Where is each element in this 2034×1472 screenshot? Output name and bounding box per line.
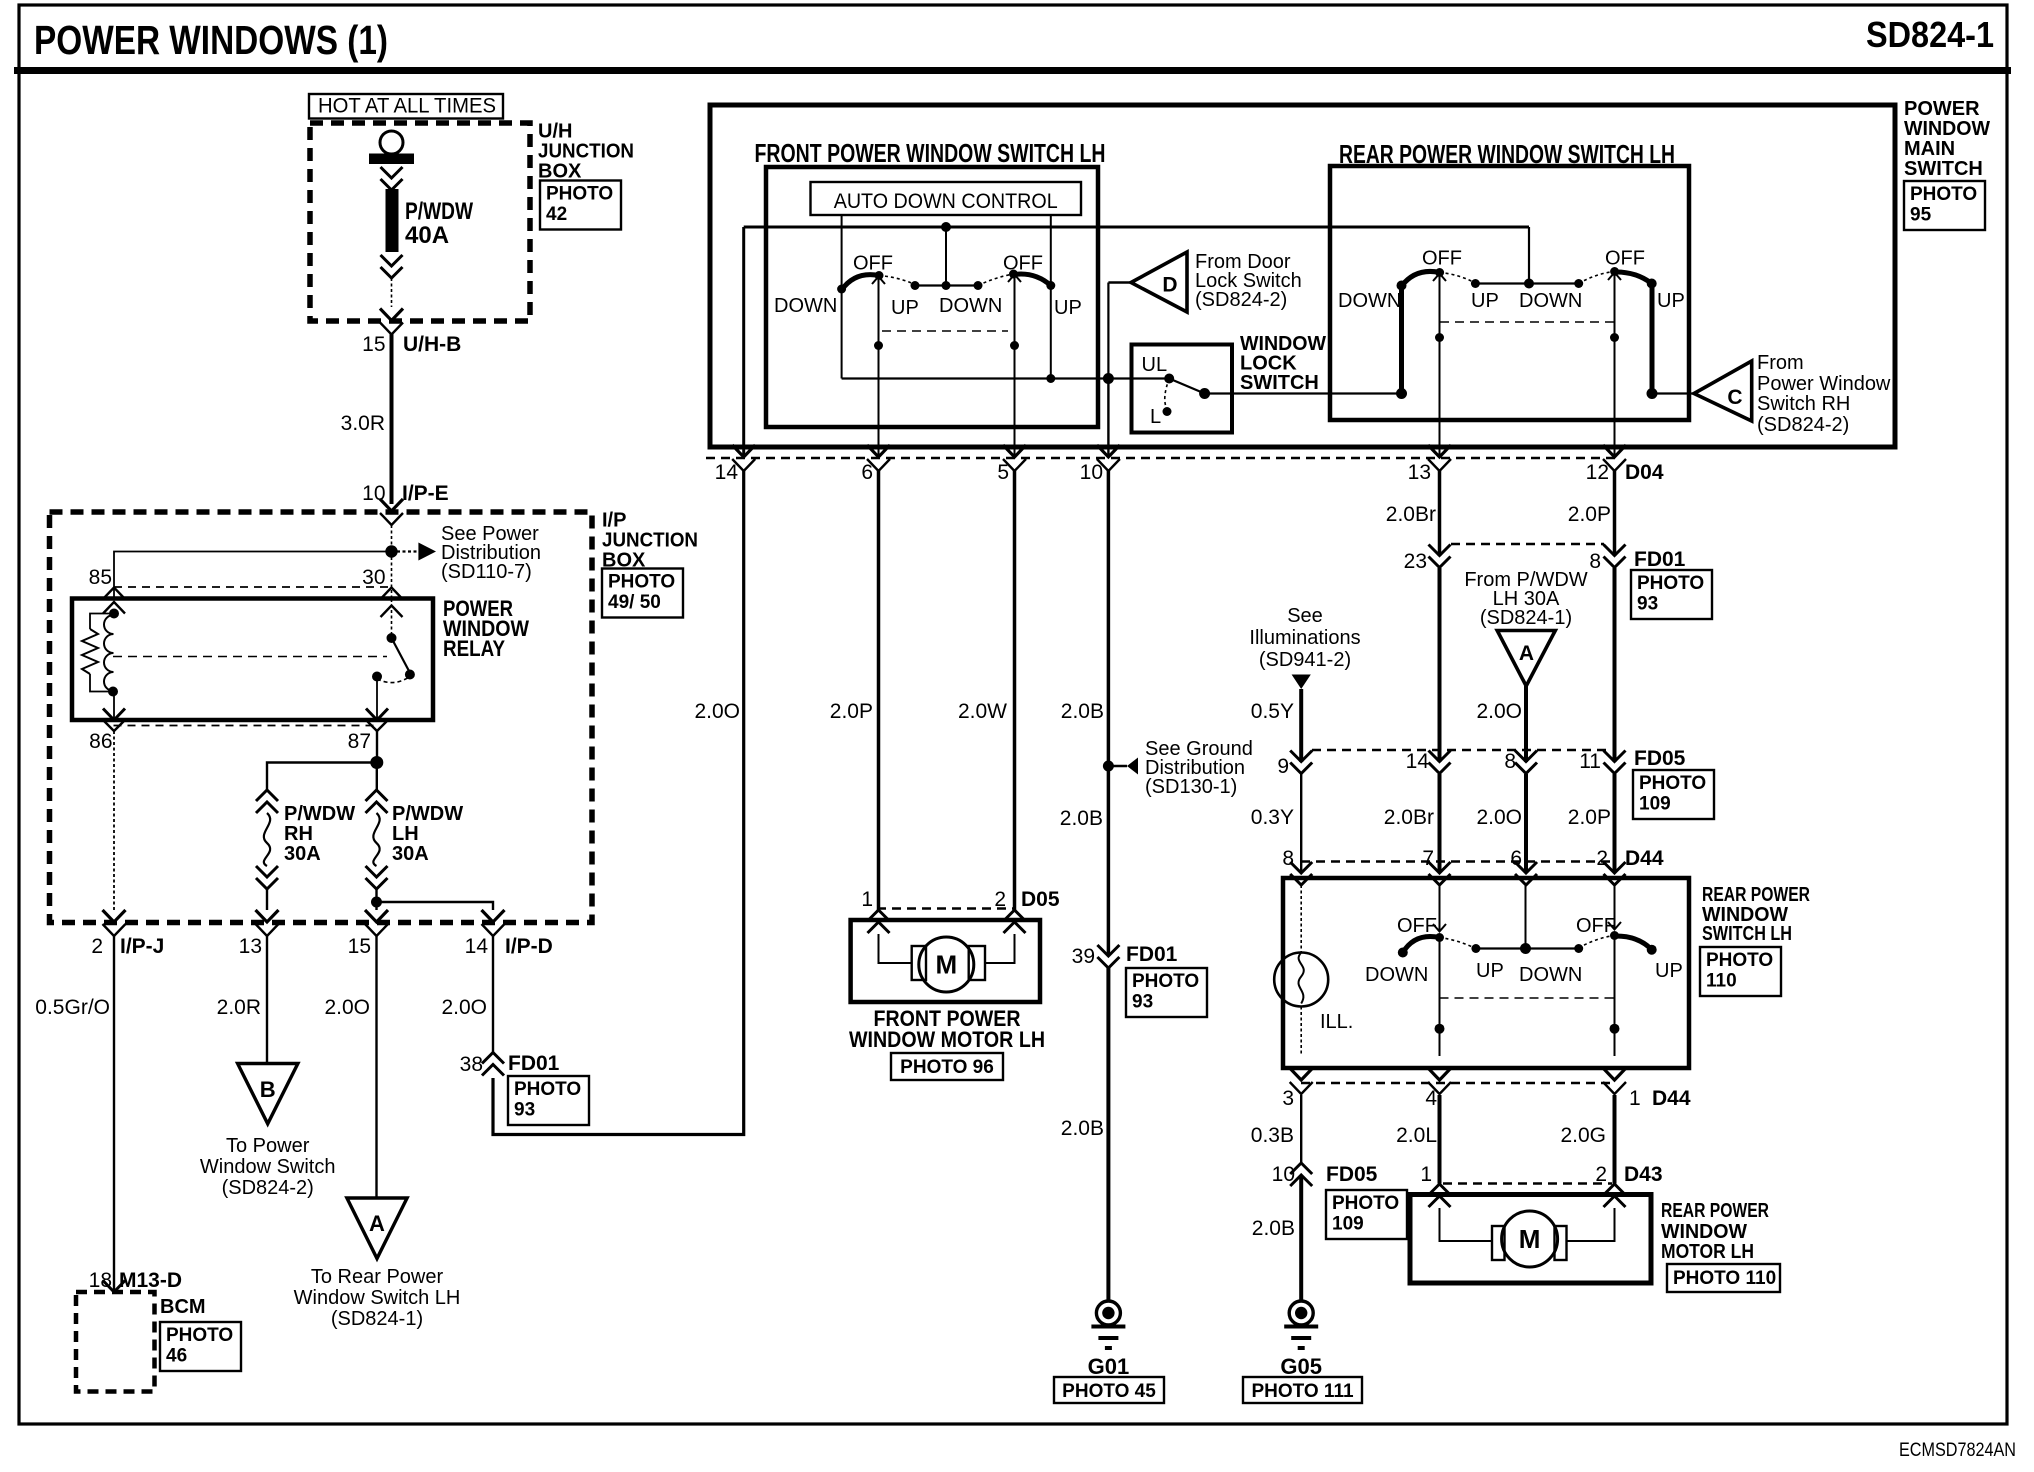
connector row D05 dashed [877,907,1013,909]
svg-text:LH: LH [392,823,419,845]
header REAR POWER WINDOW SWITCH LH [1339,139,1675,169]
wire 2.0Br 14-7 [1384,774,1440,873]
svg-text:93: 93 [514,1099,535,1120]
svg-text:(SD130-1): (SD130-1) [1145,776,1237,798]
label from power window switch RH [1757,352,1891,436]
label DOWN rear-left [1338,290,1401,312]
illumination feed arrow [1292,675,1311,690]
wire 2.0W pin5 [958,470,1015,910]
svg-text:14: 14 [465,935,489,958]
svg-text:Switch RH: Switch RH [1757,393,1850,415]
svg-text:4: 4 [1425,1087,1437,1110]
connector 12 D04 [1586,445,1626,484]
front right switch contacts [1009,270,1055,291]
label OFF rear2-right [1576,915,1616,937]
rear power window motor box [1410,1195,1651,1284]
svg-text:38: 38 [460,1053,483,1076]
wire rear-left down to bus [1396,286,1407,400]
battery feed symbol [369,131,414,164]
svg-text:G05: G05 [1280,1354,1322,1379]
svg-text:UP: UP [891,297,919,319]
svg-text:PHOTO: PHOTO [546,183,613,204]
svg-text:POWER WINDOWS (1): POWER WINDOWS (1) [34,17,388,63]
svg-text:UL: UL [1142,354,1168,376]
wire junction to relay pin 30 [391,552,393,599]
label POWER WINDOW MAIN SWITCH [1904,98,1990,180]
pin 87 chevrons [366,709,388,732]
svg-text:DOWN: DOWN [939,295,1002,317]
svg-text:95: 95 [1910,204,1932,225]
svg-text:30: 30 [362,566,385,589]
relay connector dashed line (85/30) [114,586,392,588]
wire motor LH pin2 [985,934,1015,963]
svg-text:FD01: FD01 [508,1052,560,1075]
node see-power-distribution junction [385,545,397,557]
svg-text:RELAY: RELAY [443,636,505,661]
svg-text:46: 46 [166,1345,187,1366]
label UP front-right [1054,297,1082,319]
svg-text:13: 13 [1408,461,1431,484]
label UP rear2-right [1655,960,1683,982]
svg-text:UP: UP [1655,960,1683,982]
svg-text:10: 10 [1272,1163,1295,1186]
wire to fuse LH [376,763,378,791]
label DOWN rear-center [1519,290,1582,312]
svg-text:U/H-B: U/H-B [403,333,461,356]
svg-text:Window Switch LH: Window Switch LH [294,1287,461,1309]
photo ref PHOTO 111 [1243,1377,1362,1403]
label OFF rear-right [1605,248,1645,270]
connector 15 out [348,910,388,958]
svg-text:U/H: U/H [538,121,572,143]
svg-text:OFF: OFF [1605,248,1645,270]
svg-text:14: 14 [715,461,739,484]
label DOWN rear2-left [1365,964,1428,986]
svg-text:I/P-D: I/P-D [505,935,553,958]
svg-text:SWITCH: SWITCH [1904,158,1983,180]
power window main switch box [710,105,1895,447]
connector row D44 top dashed [1301,860,1614,862]
svg-text:PHOTO: PHOTO [1132,971,1199,992]
connector 6 D44 [1510,847,1537,885]
wire motor pin2 [1566,1208,1615,1241]
rear2 right pole [1608,885,1621,1056]
svg-text:M: M [935,950,957,980]
see power distribution arrow [392,523,542,583]
wire coil to pin 86 [113,692,115,721]
svg-text:G01: G01 [1088,1354,1130,1379]
window lock L contact [1150,379,1172,429]
svg-text:DOWN: DOWN [1365,964,1428,986]
svg-text:ECMSD7824AN: ECMSD7824AN [1899,1440,2016,1461]
label POWER WINDOW RELAY [443,596,529,661]
wire rear-right up to bus [1647,284,1658,400]
svg-text:POWER: POWER [1904,98,1980,120]
front power window switch box [766,167,1098,427]
svg-text:7: 7 [1422,847,1434,870]
relay switch pivot [387,599,397,643]
svg-text:2.0O: 2.0O [694,700,740,723]
svg-text:Illuminations: Illuminations [1249,627,1360,649]
rear2 left off-dashes [1440,938,1476,949]
connector 23 FD01 [1404,545,1451,574]
label HOT AT ALL TIMES [309,94,503,119]
rear2 right rocker [1615,936,1657,955]
rear2 feed drop [1525,885,1527,949]
svg-text:8: 8 [1589,550,1601,573]
pin 85 label [89,566,112,589]
label U/H JUNCTION BOX [538,121,634,183]
window lock UL contact [1142,354,1175,384]
svg-text:PHOTO: PHOTO [514,1079,581,1100]
title bar rule [14,67,2011,74]
wire ADC left leg [841,215,843,379]
relay coil bottom node [108,687,118,697]
wire pin14 drop [742,227,745,457]
wire ill to pin 3 [1300,1007,1302,1057]
wire 2.0L [1396,1095,1439,1184]
label D04 [1625,461,1664,484]
off-page triangle A (bottom) [347,1198,407,1259]
connector row D44 bottom dashed [1301,1082,1616,1084]
svg-text:PHOTO: PHOTO [1910,184,1977,205]
relay resistor [82,614,114,692]
rear power window switch LH box [1283,878,1689,1068]
svg-text:P/WDW: P/WDW [405,198,473,225]
rear left switch down contact [1397,281,1407,291]
connector 4 D44 bottom [1425,1068,1451,1110]
svg-text:PHOTO: PHOTO [1332,1193,1399,1214]
connector 14 D04 [715,445,756,484]
svg-text:2.0P: 2.0P [1568,503,1611,526]
pin 85 chevrons [103,588,125,614]
wire 2.0B to G05 [1252,1177,1301,1301]
connector 13 out [239,910,279,958]
wire 2.0G [1560,1095,1614,1184]
svg-text:DOWN: DOWN [1519,290,1582,312]
svg-text:HOT AT ALL TIMES: HOT AT ALL TIMES [318,95,496,118]
fuse P/WDW 40A top chevrons [381,167,403,190]
title POWER WINDOWS (1) [34,17,388,63]
svg-text:1: 1 [1420,1163,1432,1186]
svg-text:30A: 30A [392,843,429,865]
rear left off-dashes [1440,273,1476,284]
svg-text:DOWN: DOWN [1519,964,1582,986]
svg-text:85: 85 [89,566,112,589]
rear2 mechanical link dashed [1440,997,1615,999]
svg-text:8: 8 [1282,847,1294,870]
label OFF rear2-left [1397,915,1437,937]
svg-text:FRONT POWER WINDOW SWITCH LH: FRONT POWER WINDOW SWITCH LH [755,138,1106,168]
svg-text:L: L [1150,406,1161,428]
label DOWN front-left [774,295,837,317]
svg-text:13: 13 [239,935,262,958]
photo ref PHOTO 42 [540,181,621,230]
relay coil [104,615,114,691]
connector 10 I/P-E [362,482,449,525]
I/P junction box (dashed) [50,512,593,923]
connector 14 I/P-D [465,910,553,958]
svg-text:(SD941-2): (SD941-2) [1259,649,1351,671]
svg-text:(SD824-1): (SD824-1) [331,1308,423,1330]
rear right off-dashes [1579,272,1615,284]
fuse P/WDW RH 30A [256,790,355,889]
rear right switch contacts [1610,267,1657,289]
svg-text:0.5Gr/O: 0.5Gr/O [35,996,110,1019]
connector 38 FD01 [460,1052,560,1076]
rear motor M [1502,1211,1558,1267]
wire ADC middle drop [945,227,947,286]
front motor M [919,937,974,992]
svg-text:(SD824-2): (SD824-2) [1195,289,1287,311]
svg-text:110: 110 [1706,970,1737,991]
svg-text:2.0O: 2.0O [324,996,370,1019]
connector 7 D44 [1422,847,1450,885]
svg-text:0.5Y: 0.5Y [1251,700,1294,723]
svg-text:PHOTO 111: PHOTO 111 [1251,1381,1354,1402]
connector 10 FD05 [1272,1163,1378,1186]
svg-text:2.0L: 2.0L [1396,1124,1437,1147]
svg-text:2.0O: 2.0O [1476,700,1522,723]
BCM box (dashed) [76,1292,155,1392]
svg-text:FD05: FD05 [1326,1163,1378,1186]
rear2 left rocker [1398,937,1440,958]
svg-text:M: M [1519,1224,1541,1254]
photo ref PHOTO 109 (right) [1633,770,1714,819]
svg-text:2.0P: 2.0P [1568,806,1611,829]
wire pin 86 down [113,731,115,910]
connector 1 D05 [861,888,889,933]
svg-text:2.0R: 2.0R [217,996,261,1019]
svg-text:2.0W: 2.0W [958,700,1007,723]
label ILL. [1320,1011,1353,1033]
connector 2 D43 [1595,1163,1662,1207]
rear2 right off-dashes [1579,936,1615,949]
rear power window switch box (main) [1330,166,1689,420]
svg-text:OFF: OFF [853,253,893,275]
svg-text:SWITCH LH: SWITCH LH [1702,923,1792,945]
svg-text:UP: UP [1476,960,1504,982]
fuse P/WDW 40A body [386,189,399,252]
rear2 right off contact [1610,931,1619,940]
svg-text:ILL.: ILL. [1320,1011,1353,1033]
label REAR POWER WINDOW SWITCH LH [1702,884,1810,945]
svg-text:FD05: FD05 [1634,747,1686,770]
svg-text:PHOTO: PHOTO [1637,573,1704,594]
svg-text:UP: UP [1657,290,1685,312]
svg-text:12: 12 [1586,461,1609,484]
svg-text:I/P-J: I/P-J [120,935,164,958]
label DOWN front-center [939,295,1002,317]
svg-text:PHOTO: PHOTO [1639,773,1706,794]
photo ref PHOTO 109 (bottom) [1326,1190,1407,1239]
label FRONT POWER WINDOW MOTOR LH [849,1006,1045,1052]
wire branch to connector 14 [377,902,494,910]
label I/P JUNCTION BOX [602,510,698,572]
connector row D04 dashed [706,457,1617,459]
wire FD01-38 to main switch pin14 [493,470,744,1135]
svg-text:14: 14 [1406,750,1430,773]
label from door lock switch [1195,251,1302,311]
wire 2.0Br pin13 [1386,470,1440,556]
svg-text:BCM: BCM [160,1296,206,1318]
node I/P-D branch [371,897,382,908]
rear motor brushes [1492,1226,1567,1260]
wire rear feed drop [1528,227,1530,284]
rear2 left off contact [1435,933,1444,942]
window lock switch box [1132,345,1233,433]
wire 2.0O to FD01-38 [441,936,493,1053]
svg-text:109: 109 [1639,793,1671,814]
ground G05 [1280,1301,1322,1379]
svg-text:WINDOW MOTOR LH: WINDOW MOTOR LH [849,1027,1045,1052]
svg-text:FD01: FD01 [1634,548,1686,571]
svg-text:2.0P: 2.0P [830,700,873,723]
rear right pole [1608,273,1621,458]
pin 87 label [348,730,371,753]
svg-text:P/WDW: P/WDW [284,803,355,825]
svg-text:6: 6 [1510,847,1522,870]
rear2 center link [1471,943,1583,954]
svg-text:3.0R: 3.0R [341,412,385,435]
svg-text:D04: D04 [1625,461,1664,484]
relay bottom connector dashed line [114,725,376,727]
svg-text:RH: RH [284,823,313,845]
connector 6 D04 [861,445,890,484]
svg-text:8: 8 [1504,750,1516,773]
rear left rocker [1402,271,1440,286]
pin 30 chevrons [381,588,403,618]
node common/ADC right [1046,374,1055,383]
label to rear power window switch [294,1266,461,1330]
label DOWN rear2-center [1519,964,1582,986]
relay internal dashed separator [113,656,387,658]
svg-text:86: 86 [89,730,112,753]
front right switch rocker [1014,274,1051,286]
label OFF front-right [1003,253,1043,275]
label 2.0O pin14 [694,700,740,723]
svg-text:WINDOW: WINDOW [1904,118,1990,140]
label BCM [160,1296,206,1318]
svg-text:JUNCTION: JUNCTION [602,530,698,552]
svg-text:M13-D: M13-D [119,1269,182,1292]
wire 0.5Gr/O [35,936,114,1292]
svg-text:D: D [1162,274,1177,297]
svg-text:A: A [1519,642,1534,665]
svg-text:C: C [1727,386,1742,409]
svg-text:42: 42 [546,204,567,225]
wire 0.5Y [1251,689,1301,762]
illumination bulb ILL [1274,953,1328,1007]
rear2 left pole [1433,885,1446,1056]
connector 9 FD05 [1277,751,1312,779]
svg-text:PHOTO: PHOTO [608,571,675,592]
svg-text:109: 109 [1332,1213,1364,1234]
svg-text:UP: UP [1054,297,1082,319]
front left switch contacts [837,271,919,294]
svg-text:1: 1 [861,888,873,911]
svg-text:D43: D43 [1624,1163,1663,1186]
wire pin 87 down [376,731,378,763]
svg-text:Window Switch: Window Switch [200,1156,336,1178]
svg-text:2.0Br: 2.0Br [1386,503,1436,526]
connector 8 FD05 [1504,750,1537,774]
wire 2.0P pin6 [830,470,879,910]
pin 86 chevrons [103,709,125,732]
label UP rear-left [1471,290,1499,312]
front switch center link [915,281,983,290]
svg-text:23: 23 [1404,550,1427,573]
wire window lock to rear switch [1205,392,1402,394]
svg-text:UP: UP [1471,290,1499,312]
pin 86 label [89,730,112,753]
svg-text:OFF: OFF [1397,915,1437,937]
svg-text:2.0O: 2.0O [1476,806,1522,829]
svg-text:D44: D44 [1652,1087,1691,1110]
svg-text:I/P-E: I/P-E [402,482,449,505]
svg-text:93: 93 [1637,593,1658,614]
rear switch center link [1471,279,1583,289]
svg-text:2: 2 [1596,847,1608,870]
photo ref PHOTO 93 (bottom) [1126,968,1207,1017]
svg-text:BOX: BOX [538,161,582,183]
wire fuse to connector 15 [391,278,393,307]
svg-text:D05: D05 [1021,888,1060,911]
svg-text:MOTOR LH: MOTOR LH [1661,1241,1754,1263]
sheet number SD824-1 [1866,14,1994,55]
off-page triangle D [1131,252,1187,312]
ground G01 [1088,1301,1130,1379]
wire 2.0P pin12 [1568,470,1615,556]
window lock switch arm [1169,379,1210,400]
svg-text:9: 9 [1277,755,1289,778]
U/H junction box (dashed) [310,123,530,321]
wire 2.0O to A [324,936,376,1198]
photo ref PHOTO 110 (motor) [1667,1264,1780,1292]
node common/pin10 [1103,373,1114,384]
wire branch to fuse RH [267,763,377,791]
svg-text:3: 3 [1282,1087,1294,1110]
svg-text:10: 10 [1080,461,1103,484]
svg-text:DOWN: DOWN [1338,290,1401,312]
connector 11 FD05 [1579,747,1685,774]
fuse P/WDW LH 30A [366,790,464,889]
off-page triangle A (top) [1497,631,1555,687]
svg-text:(SD110-7): (SD110-7) [441,561,532,583]
rear left pole [1433,274,1446,458]
svg-text:PHOTO 96: PHOTO 96 [900,1057,994,1078]
connector 8 FD01 [1589,545,1685,574]
wire fuse RH to connector 13 [266,889,268,910]
wire 0.3Y [1251,774,1301,873]
wire 2.0B pin10 [1061,470,1109,956]
wire 2.0R [217,936,267,1064]
svg-text:OFF: OFF [1576,915,1616,937]
svg-text:2.0Br: 2.0Br [1384,806,1434,829]
svg-text:PHOTO 110: PHOTO 110 [1673,1268,1776,1289]
photo ref PHOTO 45 [1054,1377,1164,1403]
relay switch contact [372,672,409,683]
svg-text:1: 1 [1629,1087,1641,1110]
svg-text:11: 11 [1579,750,1601,773]
svg-text:To Power: To Power [226,1135,310,1157]
off-page triangle B [238,1064,298,1124]
drawing code ECMSD7824AN [1899,1440,2016,1461]
connector 8 D44 [1282,847,1312,885]
connector 2 D05 [994,888,1060,933]
wire fuse LH to connector 15 out [375,902,377,910]
label OFF rear-left [1422,248,1462,270]
